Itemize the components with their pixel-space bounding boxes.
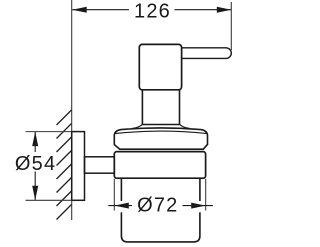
wall hatching: [57, 110, 72, 220]
mounting arm: [85, 157, 115, 173]
dimension 126 left arrowhead: [72, 7, 87, 13]
dim Ø54 down arrowhead: [32, 186, 38, 201]
glass cup: [121, 179, 199, 242]
pump head: [139, 44, 181, 89]
dim Ø54 top extension line: [26, 131, 72, 133]
white gap in cup walls at dim line crossing: [119, 201, 123, 212]
dim Ø72 left arrowhead: [114, 203, 129, 209]
dim Ø54 up arrowhead: [32, 132, 38, 147]
dim Ø72 left extension line: [113, 179, 115, 211]
wall face line (also left extension line of dim 126): [71, 0, 73, 220]
spout: [182, 48, 232, 59]
right extension line of dim 126: [230, 2, 232, 50]
svg-text:126: 126: [134, 1, 171, 23]
pump neck: [142, 90, 179, 125]
svg-text:Ø54: Ø54: [15, 153, 56, 175]
dimension 126 right arrowhead: [217, 7, 232, 13]
svg-text:Ø72: Ø72: [137, 194, 178, 216]
dim Ø54 line: [34, 132, 36, 200]
dim Ø72 line: [108, 205, 213, 207]
neck flare right: [180, 124, 190, 128]
dimension 126 line: [72, 9, 231, 11]
holder ring: [114, 152, 205, 179]
wall plate: [72, 132, 85, 201]
dim Ø72 right extension line: [205, 179, 207, 211]
dim Ø72 right arrowhead: [191, 203, 206, 209]
neck flare left: [132, 124, 142, 128]
lid inner line: [115, 131, 207, 134]
dim Ø54 bottom extension line: [26, 199, 72, 201]
bottle lid outline: [114, 128, 207, 149]
